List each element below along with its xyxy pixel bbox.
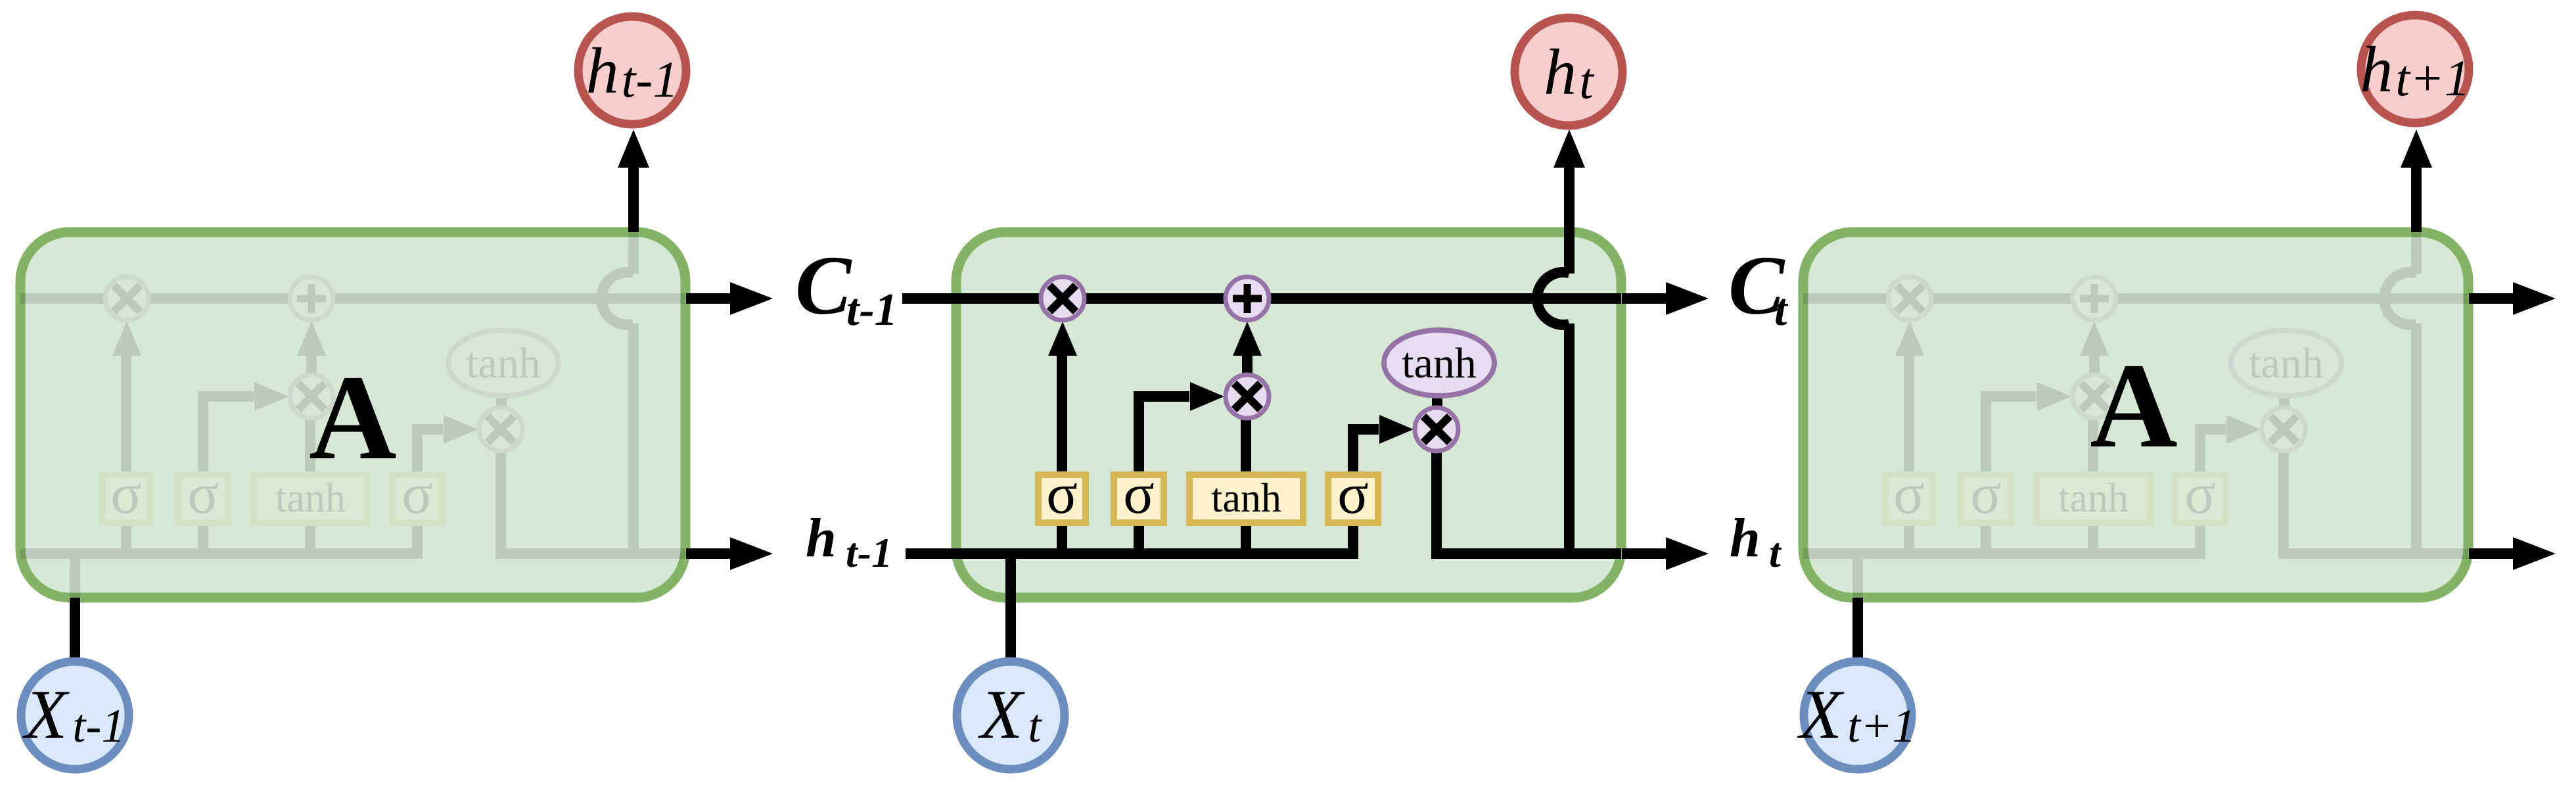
svg-text:σ: σ (1337, 462, 1368, 526)
gate: output sigma (1328, 475, 1378, 523)
op: add (2073, 277, 2116, 320)
gate: input sigma (178, 475, 228, 523)
wire: candidate tanh stem up to x2 (2088, 418, 2098, 554)
wire+arrow: h exit right (686, 548, 737, 559)
svg-text:σ: σ (402, 462, 432, 526)
gate: forget sigma (1038, 475, 1086, 523)
wire+arrow: h exit right (2469, 548, 2519, 559)
svg-text:σ: σ (1046, 462, 1077, 526)
svg-text:A: A (309, 350, 397, 485)
node: h(t-1) output circle (578, 16, 686, 124)
svg-text:A: A (2090, 339, 2178, 473)
wire: candidate tanh stem up to x2 (1241, 418, 1251, 554)
wire+arrow: output up to h circle (2411, 164, 2422, 232)
LSTM cell box A(t+1) (1803, 232, 2468, 598)
wire+arrow: h exit right (1622, 548, 1672, 559)
gate: candidate tanh (254, 475, 367, 523)
LSTM cell box A(t) detailed (956, 232, 1621, 598)
wire: x2 to + arrow (1242, 356, 1253, 396)
op: input multiply x2 (290, 375, 333, 418)
svg-text:tanh: tanh (2249, 339, 2324, 387)
svg-text:C: C (795, 239, 852, 332)
wire: tanh ellipse to x3 connector (2279, 396, 2289, 411)
wire: x input stem below cell (70, 598, 80, 657)
svg-text:σ: σ (110, 462, 141, 526)
wire: cell-state C line (1803, 293, 2468, 304)
gate: output sigma (2175, 475, 2225, 523)
faded internals of left cell (20, 232, 685, 598)
op: output multiply x3 (2262, 408, 2305, 451)
gate: input sigma (1114, 475, 1164, 523)
wire: x input stem inside cell (1005, 554, 1016, 657)
svg-text:t: t (1774, 285, 1789, 335)
wire: input gate elbow into x2 (1986, 396, 2036, 554)
svg-text:tanh: tanh (1402, 339, 1477, 387)
wire: x input stem inside cell (1852, 554, 1863, 598)
gate: forget sigma (1885, 475, 1933, 523)
wire: x input stem below cell (1852, 598, 1863, 657)
wire: input gate elbow into x2 (1139, 396, 1189, 554)
wire: hidden-state h line into output-gate elbow (20, 429, 443, 554)
svg-text:tanh: tanh (466, 339, 541, 387)
wire: input gate elbow into x2 (203, 396, 254, 554)
gate: output sigma (392, 475, 442, 523)
faded internals of right cell (1803, 232, 2468, 598)
node: h(t) output circle (1515, 18, 1622, 126)
op: forget multiply x1 (1888, 277, 1931, 320)
svg-text:h: h (806, 508, 837, 569)
wire: cell-state C line (902, 293, 1621, 304)
op: tanh ellipse (2231, 330, 2341, 396)
svg-text:t-1: t-1 (846, 285, 898, 335)
op: output multiply x3 (479, 408, 522, 451)
wire: x3 output down then right to h exit (2284, 451, 2468, 554)
wire: h branch vertical with hop over C line (2411, 232, 2422, 274)
op: forget multiply x1 (105, 277, 149, 320)
wire: hidden-state h line into output-gate elbow (1803, 429, 2226, 554)
node: x(t+1) input circle (1804, 661, 1912, 769)
wire: x2 to + arrow (2089, 356, 2100, 396)
op: input multiply x2 (1226, 375, 1269, 418)
svg-text:h: h (1730, 508, 1760, 569)
svg-text:t-1: t-1 (846, 529, 892, 576)
wire: x input stem inside cell (70, 554, 80, 598)
wire: x3 output down then right to h exit (1437, 451, 1621, 554)
wire+arrow: C state exit right (686, 293, 737, 304)
wire+arrow: C state exit right (2469, 293, 2519, 304)
wire+arrow: output up to h circle (1564, 164, 1575, 232)
svg-text:σ: σ (1893, 462, 1924, 526)
op: tanh ellipse (448, 330, 559, 396)
svg-text:σ: σ (2184, 462, 2215, 526)
wire: forget gate stem and arrow into x1 (1057, 356, 1067, 554)
gate: candidate tanh (2036, 475, 2150, 523)
op: add (1226, 277, 1269, 320)
node: h(t+1) output circle (2361, 15, 2469, 123)
wire: forget gate stem and arrow into x1 (121, 356, 131, 554)
LSTM cell box A(t-1) (20, 232, 685, 598)
svg-text:σ: σ (187, 462, 218, 526)
wire: h branch vertical with hop over C line (1564, 168, 1575, 274)
node: x(t) input circle (957, 661, 1065, 769)
svg-text:tanh: tanh (2058, 476, 2128, 521)
svg-text:t: t (1769, 529, 1782, 576)
wire+arrow: output up to h circle (628, 164, 639, 232)
wire: hidden-state h line into output-gate elbow (906, 429, 1379, 554)
wire: x3 output down then right to h exit (501, 451, 685, 554)
op: tanh ellipse (1384, 330, 1494, 396)
op: forget multiply x1 (1041, 277, 1084, 320)
wire: forget gate stem and arrow into x1 (1904, 356, 1914, 554)
gate: forget sigma (103, 475, 150, 523)
svg-text:σ: σ (1123, 462, 1154, 526)
wire: x2 to + arrow (306, 356, 317, 396)
svg-text:tanh: tanh (1211, 476, 1281, 521)
wire: x input stem below cell (1005, 598, 1016, 657)
wire+arrow: C state exit right (1622, 293, 1672, 304)
node: x(t-1) input circle (21, 661, 129, 769)
op: add (290, 277, 333, 320)
gate: candidate tanh (1189, 475, 1303, 523)
wire: h branch vertical with hop over C line (628, 232, 639, 274)
wire: cell-state C line (20, 293, 685, 304)
op: output multiply x3 (1415, 408, 1458, 451)
wire: tanh ellipse to x3 connector (1432, 396, 1442, 411)
gate: input sigma (1961, 475, 2011, 523)
op: input multiply x2 (2073, 375, 2116, 418)
wire: tanh ellipse to x3 connector (496, 396, 507, 411)
svg-text:σ: σ (1970, 462, 2001, 526)
wire: candidate tanh stem up to x2 (305, 418, 315, 554)
